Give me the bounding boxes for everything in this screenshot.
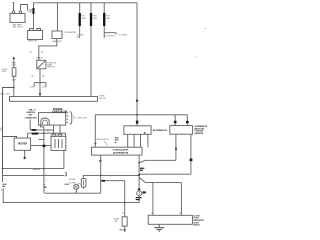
svg-text:2: 2 <box>73 116 75 120</box>
fusible link FL1 bar <box>33 8 35 14</box>
wire to glow box drop A <box>152 183 154 216</box>
wire branch to gauge fuse <box>101 180 125 182</box>
svg-text:REGULATOR: REGULATOR <box>96 138 109 141</box>
connector pins right of ignition switch <box>66 113 68 123</box>
label alternator wires <box>115 137 119 144</box>
label FL3 <box>93 16 98 20</box>
wire H2 right segment <box>83 174 139 176</box>
label below bus faint <box>29 108 37 111</box>
relay box lower left <box>14 138 30 150</box>
label alternator relay <box>195 125 208 135</box>
connector bracket end H2 <box>65 173 67 176</box>
label tick drop1 <box>175 148 177 150</box>
svg-text:HEATER: HEATER <box>18 142 28 145</box>
svg-text:W: W <box>115 142 117 144</box>
wire to glow box drop B <box>180 183 182 216</box>
svg-text:BATTERY: BATTERY <box>52 40 62 43</box>
wire relay feed drop <box>174 115 176 126</box>
label on wire dark <box>32 129 37 131</box>
wire battery B1 right terminal jog <box>21 5 28 11</box>
capacitor noise filter <box>82 175 84 178</box>
label below bus dark <box>53 107 63 111</box>
svg-text:IC REGULATOR: IC REGULATOR <box>113 149 129 152</box>
label fuse bus <box>99 96 106 100</box>
label jog end <box>29 10 32 12</box>
wire gauge to bottom bus <box>138 196 140 203</box>
junction dot horn branch <box>13 87 15 89</box>
label gauge fuse top <box>122 213 124 215</box>
junction dot FL3 at fuse bus <box>90 96 92 98</box>
alternator box <box>124 126 151 135</box>
wire left main down <box>2 88 4 176</box>
svg-text:W-R: W-R <box>12 80 17 82</box>
svg-text:LINK: LINK <box>12 65 17 67</box>
label gauge below dark <box>136 197 142 200</box>
speck top right <box>205 28 207 29</box>
label FL2 destination <box>77 35 84 39</box>
label regulator leader <box>96 138 109 141</box>
svg-text:LINK: LINK <box>93 18 98 20</box>
label on H1 <box>33 169 40 171</box>
fusible link FL3 bar <box>90 13 92 26</box>
wire relay box bottom with dot <box>24 150 26 157</box>
label near ignition drop <box>47 131 51 133</box>
tick battery B1 left wire top <box>13 2 15 4</box>
wire relay box right <box>31 145 52 147</box>
label junction block <box>52 31 76 43</box>
ignition switch SW1 <box>39 113 66 126</box>
wire horizontal to fuse box <box>28 133 66 136</box>
label V1 dark <box>140 168 144 171</box>
label horn wire <box>12 62 17 66</box>
label drop B <box>180 213 182 215</box>
label ticks on relay feeds <box>174 121 177 123</box>
svg-text:BATTERY: BATTERY <box>28 40 38 43</box>
label noise filter <box>69 179 76 184</box>
label tick on main vertical <box>136 121 138 124</box>
battery B1 <box>10 11 25 23</box>
junction dot V1 upper <box>138 162 140 164</box>
gauge circle <box>138 189 140 191</box>
wire charge line H1 <box>3 168 64 170</box>
label on wire dark <box>32 133 38 135</box>
label FL4 <box>106 16 111 20</box>
label relay K1 <box>47 62 56 68</box>
label FL2 <box>81 16 86 20</box>
wire relay bottom drop 2 <box>190 134 192 174</box>
wire left line lower labels <box>2 184 7 188</box>
label FL4 branch <box>118 34 127 36</box>
label wire flags <box>31 76 45 78</box>
junction dot horn feed at fuse bus <box>13 96 15 98</box>
label fuse F2 left <box>114 218 120 222</box>
svg-text:TO GA: TO GA <box>119 228 126 231</box>
label battery B1 <box>12 24 23 29</box>
wire main vertical from bus to alternator <box>136 3 138 126</box>
svg-text:ALTERNATOR: ALTERNATOR <box>153 129 167 132</box>
label FL1 <box>28 9 33 13</box>
wire bus to junction block <box>57 3 59 31</box>
junction dot bottom bus <box>124 202 126 204</box>
wire battery B1 left terminal up <box>13 3 15 11</box>
wire relay K1 to fuse bus <box>39 69 41 97</box>
fuse F1 <box>12 68 16 77</box>
wire ignition sw drop to fuse box pin2 <box>59 125 61 134</box>
label charge lamp wire <box>45 173 47 181</box>
wire junction block to glow relay <box>39 39 57 61</box>
junction dot crossing <box>43 132 45 134</box>
voltage regulator box <box>92 147 143 155</box>
wire relay box top stub <box>3 137 17 139</box>
label connector set <box>73 116 88 120</box>
fusible link FL3 wire to fuse bus <box>90 3 92 97</box>
node T-bar <box>34 83 46 87</box>
label tick drop2 dark <box>190 159 193 162</box>
svg-text:CONNECTOR: CONNECTOR <box>25 117 38 119</box>
wire stub at 139.5 <box>39 139 44 141</box>
junction dot regulator wire on H2 <box>100 175 102 177</box>
svg-text:CONN. SET: CONN. SET <box>76 118 88 120</box>
svg-text:(ALTERNATOR): (ALTERNATOR) <box>113 151 129 154</box>
wire top bus <box>34 2 138 4</box>
svg-text:B-W: B-W <box>42 87 46 89</box>
battery B2 <box>28 29 43 40</box>
wire Hc from relay drop2 <box>139 173 191 175</box>
svg-text:BLOCK: BLOCK <box>99 98 106 100</box>
junction dot V1 at H2 <box>138 174 140 176</box>
label connector marks on branch <box>102 180 105 182</box>
junction block (to starter) <box>52 31 62 39</box>
wire ignition sw drop to fuse box pin1 <box>53 125 55 134</box>
label above relay <box>36 57 43 60</box>
svg-text:LINK: LINK <box>28 12 33 14</box>
junction dot main vertical on H <box>136 114 138 116</box>
label below fuse <box>12 80 17 82</box>
label gauge right dark <box>142 191 145 193</box>
label charge lamp <box>64 184 69 186</box>
label tick on regulator feed <box>94 143 96 144</box>
wires alternator to regulator <box>128 134 148 147</box>
wire V1 regulator to gauge <box>138 155 140 191</box>
fuse bus bar <box>10 97 98 102</box>
label tick on regulator drop <box>99 160 102 161</box>
label main connector block <box>25 110 38 120</box>
wire H2 left segment <box>3 174 65 176</box>
junction arrow onto fuse bus <box>39 93 42 96</box>
label alternator <box>153 129 167 132</box>
label ignition switch <box>52 110 68 113</box>
svg-text:W B-W: W B-W <box>33 169 40 171</box>
fuse box <box>51 134 66 150</box>
wire diagonal jog to Ha <box>139 160 176 163</box>
label relay box <box>18 142 28 145</box>
svg-text:SENSOR): SENSOR) <box>195 133 204 135</box>
fusible link FL2 wire <box>79 3 81 38</box>
svg-text:BLACK: BLACK <box>36 57 43 60</box>
fusible link FL2 bar <box>79 13 81 26</box>
label left bottom tiny <box>1 190 3 192</box>
label wire left <box>29 52 44 54</box>
label FL4 bottom <box>105 35 115 37</box>
svg-text:NOISE: NOISE <box>69 179 76 181</box>
bracket connector set <box>70 112 72 125</box>
svg-text:CHG: CHG <box>64 184 69 186</box>
label on wire dark <box>43 145 46 147</box>
wire regulator L down <box>45 155 101 193</box>
wire feed to regulator from H(114.8) <box>95 115 187 147</box>
lamp charge warning <box>74 184 79 189</box>
label fuse F1 <box>2 69 8 73</box>
svg-text:TO FUSE: TO FUSE <box>118 34 127 36</box>
wire ignition sw drop left <box>41 125 44 193</box>
ground under glow box <box>158 224 160 227</box>
svg-text:(CAL. VEH.): (CAL. VEH.) <box>12 26 23 29</box>
label below fuse F2 <box>119 228 126 231</box>
junction dot inside alternator <box>144 132 146 134</box>
svg-text:B-W: B-W <box>30 87 34 89</box>
wire diagonal jog to Hb <box>139 177 181 182</box>
wire horn feed <box>13 59 15 96</box>
junction H1 lamp drop <box>43 168 45 170</box>
junction dot left wire at H1 <box>2 168 4 170</box>
key cylinder inside <box>41 118 49 125</box>
wire branch left from horn feed <box>3 88 14 176</box>
svg-text:SWITCH: SWITCH <box>47 67 55 69</box>
fusible link FL4 wire <box>103 3 105 38</box>
svg-text:TO STARTER: TO STARTER <box>64 31 77 34</box>
label glow box right <box>194 215 205 226</box>
svg-text:LINK: LINK <box>106 18 111 20</box>
svg-text:SW: SW <box>77 37 80 39</box>
relay K1 (with diagonal) <box>37 60 46 69</box>
label T-bar <box>30 87 46 89</box>
svg-text:RELAY: RELAY <box>194 224 201 227</box>
glow indicator box <box>148 215 192 224</box>
label battery B2 <box>28 40 38 43</box>
label drop A <box>151 213 153 215</box>
wire horn feed arrow <box>13 56 16 59</box>
svg-text:LINK: LINK <box>81 18 86 20</box>
fuse F2 <box>122 217 127 226</box>
wire left line to bottom loop <box>2 175 4 182</box>
wire relay bottom drop 1 <box>175 134 177 160</box>
fusible link FL1 wire to battery B2 <box>33 3 35 29</box>
label pair above bus <box>0 94 10 96</box>
svg-text:IGNITION SW: IGNITION SW <box>52 110 68 113</box>
speck mid right <box>196 57 197 58</box>
svg-text:W-R: W-R <box>6 94 11 96</box>
fusible link FL4 bar <box>103 13 105 26</box>
svg-text:TO HORN: TO HORN <box>105 35 115 37</box>
label left wire vertical <box>0 128 2 132</box>
wire FL4 branch right <box>104 33 116 35</box>
wire main connector down <box>30 119 53 129</box>
wire gauge fuse vertical <box>124 181 126 232</box>
wire connector stub <box>27 133 29 138</box>
label tick on main vertical mid <box>136 100 138 102</box>
wire fuse box drop <box>63 150 65 168</box>
label regulator <box>113 149 129 155</box>
alternator relay box <box>170 126 193 135</box>
